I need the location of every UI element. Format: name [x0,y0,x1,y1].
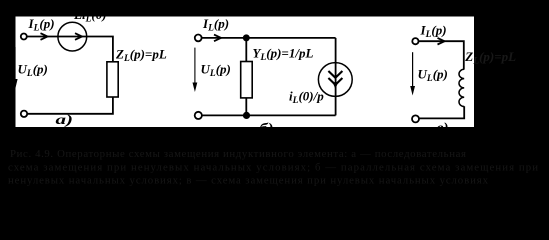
svg-text:ненулевых начальных условиях;: ненулевых начальных условиях; в — схема … [8,175,489,187]
svg-text:IL(p): IL(p) [420,22,447,40]
arrow inside EMF a [75,33,82,40]
wire bottom c [419,106,464,118]
arrow on wire c [438,38,445,45]
wire top a [27,37,113,62]
svg-text:а): а) [56,112,74,127]
svg-text:IL(p): IL(p) [28,16,55,34]
wire top b [202,37,336,39]
terminal top-left c [412,38,418,44]
current source circle b [318,63,352,97]
wire bottom a [27,97,113,114]
svg-text:б): б) [260,121,274,136]
svg-text:UL(p): UL(p) [18,62,48,80]
node dot top b [243,34,250,41]
wire bottom b [202,114,336,116]
inductor coil [459,69,464,106]
svg-text:Рис. 4.9. Операторные схемы за: Рис. 4.9. Операторные схемы замещения ин… [10,148,466,160]
terminal bottom-left a [21,111,27,117]
terminal top-left b [195,35,202,42]
resistor box Z_L(p) [107,62,118,97]
wire to admittance box [245,38,247,62]
wire below box b [245,98,247,116]
arrow on wire b [214,35,221,42]
svg-text:ZL(p)=pL: ZL(p)=pL [464,49,516,67]
node dot bottom b [243,112,250,119]
wire top c [419,41,464,69]
arrow on wire a [41,33,48,40]
right branch wire b [335,38,337,116]
EMF source circle a [58,22,87,51]
terminal bottom-left b [195,112,202,119]
svg-text:IL(p): IL(p) [202,16,229,34]
U arrow a (clipped by panel edge) [14,47,16,86]
terminal top-left a [21,34,27,40]
double arrowhead in source [328,71,342,78]
svg-text:схема замещения при ненулевых: схема замещения при ненулевых начальных … [8,162,538,174]
U arrow b [194,48,196,88]
svg-text:UL(p): UL(p) [418,67,448,85]
svg-text:ZL(p)=pL: ZL(p)=pL [115,47,167,65]
admittance box Y_L(p) [241,62,253,98]
white figure panel [16,17,475,128]
svg-text:в): в) [437,120,449,135]
svg-text:UL(p): UL(p) [201,62,231,80]
U arrow c [412,52,414,91]
terminal bottom-left c [412,115,419,122]
